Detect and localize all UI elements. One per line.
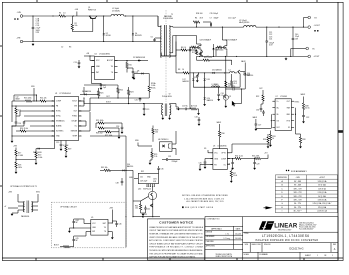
svg-text:C42: C42 bbox=[147, 209, 150, 211]
wire -VIN rail bbox=[23, 41, 161, 43]
wire opto collector bbox=[172, 143, 176, 145]
capacitor C16 bbox=[218, 87, 220, 94]
terminal +VOUT E4 bbox=[308, 26, 311, 29]
resistor R18 bbox=[15, 162, 17, 168]
wire u3 fb in bbox=[200, 163, 213, 165]
diode D11 bias bbox=[213, 72, 215, 74]
svg-text:R1: R1 bbox=[59, 13, 61, 15]
linear technology logo bbox=[259, 221, 298, 231]
wire vaux emitter bbox=[239, 74, 241, 87]
svg-text:CONTRACT NO.: CONTRACT NO. bbox=[207, 217, 221, 220]
svg-text:COMP: COMP bbox=[56, 101, 62, 103]
wire T2 secondary bbox=[169, 104, 171, 105]
wire bias mid rail bbox=[193, 86, 240, 88]
resistor R30 vcc bbox=[219, 131, 221, 137]
svg-text:Phone: (408) 432-1900: Phone: (408) 432-1900 bbox=[299, 227, 316, 229]
svg-text:+VB: +VB bbox=[86, 53, 89, 55]
resistor R7B gate bbox=[217, 46, 222, 48]
resistor R28 opto bbox=[152, 129, 154, 135]
ground C16 bbox=[218, 97, 220, 100]
wire ss row bbox=[24, 120, 55, 122]
svg-text:FOR ASSEMBLY: FOR ASSEMBLY bbox=[291, 170, 308, 173]
wire u7 left bus bbox=[270, 114, 272, 128]
svg-text:Q9: Q9 bbox=[229, 96, 231, 98]
svg-text:+VO: +VO bbox=[264, 153, 268, 155]
wire gnd row U1 bbox=[12, 135, 55, 137]
svg-text:BAS516: BAS516 bbox=[127, 165, 133, 168]
ground U5 right bbox=[111, 236, 113, 239]
svg-text:INP: INP bbox=[92, 231, 95, 233]
svg-text:R5B 100: R5B 100 bbox=[196, 13, 203, 15]
svg-text:D6 BAS516: D6 BAS516 bbox=[82, 90, 91, 93]
wire U1 vin row bbox=[82, 105, 85, 107]
for assembly table bbox=[275, 175, 337, 213]
svg-text:C6: C6 bbox=[151, 37, 153, 39]
svg-text:C30: C30 bbox=[256, 110, 259, 112]
wire OUT bus bbox=[90, 97, 149, 99]
terminal -VOUT E5 bbox=[306, 47, 309, 50]
assembly row arrow bbox=[266, 206, 273, 209]
capacitor C20 gate bbox=[139, 98, 142, 100]
diode D17 bbox=[192, 73, 194, 78]
net VFB stub opto bbox=[137, 143, 139, 147]
wire aux rail bbox=[175, 36, 177, 73]
wire q13 links bbox=[133, 200, 141, 202]
wire t4 stubs bbox=[18, 201, 25, 203]
svg-text:R8: R8 bbox=[178, 69, 180, 71]
wire L1 out bbox=[124, 15, 158, 17]
wire L2 to +VOUT bbox=[256, 26, 308, 28]
ground C15 R19 bbox=[60, 147, 62, 150]
svg-text:41.2: 41.2 bbox=[234, 83, 237, 85]
svg-text:J. Yu: J. Yu bbox=[225, 233, 229, 235]
svg-text:10-3-06: 10-3-06 bbox=[235, 233, 241, 235]
svg-text:C12: C12 bbox=[16, 97, 19, 99]
svg-text:CUSTOMER NOTICE: CUSTOMER NOTICE bbox=[159, 220, 193, 224]
svg-text:LT4430ES6: LT4430ES6 bbox=[218, 145, 227, 147]
ground C32 bbox=[303, 120, 305, 123]
frame zone marker bbox=[338, 130, 343, 133]
capacitor C13 vin bbox=[78, 60, 80, 62]
resistor R11 sense bbox=[195, 50, 197, 55]
wire u3 vcc top bbox=[219, 124, 221, 127]
wire delay oc rows bbox=[79, 120, 87, 122]
svg-text:18V - 72V: 18V - 72V bbox=[294, 188, 303, 190]
svg-text:OUT: OUT bbox=[259, 88, 263, 90]
svg-text:10: 10 bbox=[228, 86, 230, 88]
diode D15 bbox=[142, 216, 144, 218]
optional circuit dashed box bbox=[51, 202, 126, 248]
svg-text:VERIFY PROPER AND RELIABLE OPE: VERIFY PROPER AND RELIABLE OPERATION IN … bbox=[149, 236, 203, 239]
svg-text:B0530W: B0530W bbox=[135, 35, 142, 37]
svg-text:C45: C45 bbox=[76, 238, 79, 240]
resistor R14 bbox=[40, 100, 46, 102]
wire U5 bottom link bbox=[74, 235, 86, 237]
svg-text:SHEET: SHEET bbox=[305, 255, 312, 257]
resistor R62 bbox=[104, 169, 111, 171]
wire t2 to fet gates bbox=[189, 47, 191, 109]
svg-text:APPROVALS: APPROVALS bbox=[211, 227, 222, 230]
capacitor C42 bbox=[144, 207, 147, 209]
svg-text:BAS516: BAS516 bbox=[207, 99, 213, 102]
svg-text:RCSL: RCSL bbox=[151, 87, 156, 89]
svg-text:SOUT: SOUT bbox=[72, 101, 77, 103]
ground R33 bbox=[270, 143, 272, 146]
capacitor C1A-C1D input bank bbox=[32, 16, 34, 28]
wire -VOUT terminal stub bbox=[290, 49, 292, 57]
svg-text:BOOST: BOOST bbox=[107, 60, 114, 62]
svg-text:SYNC: SYNC bbox=[56, 116, 61, 118]
ground R18 bbox=[15, 170, 17, 173]
svg-text:U2: U2 bbox=[95, 54, 97, 56]
resistor R24 alt bbox=[191, 108, 197, 110]
capacitor C8 snubber2 bbox=[189, 49, 191, 52]
svg-text:-VIN: -VIN bbox=[17, 38, 21, 40]
svg-text:C35 100pF: C35 100pF bbox=[210, 13, 218, 15]
capacitor C34 top stub bbox=[198, 119, 201, 121]
terminal -VOUT E6 bbox=[308, 55, 311, 58]
svg-text:R4: R4 bbox=[195, 17, 197, 19]
svg-text:C20: C20 bbox=[135, 100, 138, 102]
svg-text:SW1: SW1 bbox=[36, 192, 40, 194]
svg-text:C2: C2 bbox=[61, 47, 63, 49]
svg-text:TECHNOLOGY: TECHNOLOGY bbox=[278, 229, 293, 231]
svg-text:BCP56-16: BCP56-16 bbox=[143, 188, 151, 190]
ground U1 left bbox=[11, 126, 13, 140]
diode D2 bbox=[103, 16, 105, 33]
svg-text:C26: C26 bbox=[232, 86, 235, 88]
wire cursor-area net bbox=[225, 56, 227, 80]
svg-text:18V - 72V: 18V - 72V bbox=[294, 196, 303, 198]
svg-text:C19: C19 bbox=[146, 109, 149, 111]
svg-text:10k: 10k bbox=[75, 25, 78, 27]
ground t2 sec2 bbox=[198, 109, 200, 112]
svg-text:PULSE ENG: PULSE ENG bbox=[162, 96, 172, 98]
svg-text:R30: R30 bbox=[221, 133, 224, 135]
svg-text:D18: D18 bbox=[207, 79, 210, 81]
svg-text:10: 10 bbox=[182, 69, 184, 71]
output probe dots bbox=[314, 30, 316, 32]
svg-text:U1: U1 bbox=[55, 93, 57, 95]
wire T2 primary bbox=[160, 103, 163, 105]
ground C27 bbox=[255, 127, 257, 130]
svg-text:OPTIONAL CIRCUIT: OPTIONAL CIRCUIT bbox=[60, 205, 78, 208]
svg-text:36 - 72V *: 36 - 72V * bbox=[294, 211, 302, 213]
svg-text:R27 100k: R27 100k bbox=[105, 135, 112, 137]
resistor R25 bbox=[98, 122, 104, 124]
net +VOUT stub fb bbox=[267, 155, 269, 159]
diode D18 bbox=[204, 73, 206, 78]
diode D14 bbox=[123, 169, 125, 171]
resistor R36 bbox=[267, 137, 269, 143]
resistor R22 bbox=[117, 88, 119, 93]
isolation boundary line bbox=[165, 10, 167, 24]
svg-text:PA0184NL: PA0184NL bbox=[21, 215, 29, 218]
capacitor C45 optional bbox=[72, 239, 75, 241]
svg-text:C28: C28 bbox=[227, 164, 230, 166]
transistor Q3 FZT690B bbox=[238, 71, 240, 73]
resistor R10 boost bbox=[126, 63, 128, 69]
svg-text:1: 1 bbox=[317, 255, 318, 257]
capacitor C12 boost bbox=[132, 71, 135, 73]
capacitor C15 nc bbox=[180, 108, 185, 110]
svg-text:C7: C7 bbox=[210, 17, 212, 19]
resistor R19 bbox=[65, 146, 67, 152]
svg-text:R19: R19 bbox=[68, 149, 71, 151]
svg-text:C46: C46 bbox=[118, 224, 121, 226]
wire R1 to Q1 bbox=[66, 15, 92, 17]
wire u7 right bbox=[295, 108, 297, 121]
svg-text:C32: C32 bbox=[306, 117, 309, 119]
svg-text:-VOUT: -VOUT bbox=[314, 56, 321, 58]
svg-text:R26 412: R26 412 bbox=[96, 133, 103, 135]
capacitor C25 left bbox=[204, 161, 207, 163]
svg-text:OPTO: OPTO bbox=[221, 152, 226, 154]
wire blank row bbox=[30, 125, 55, 127]
svg-text:OF: OF bbox=[324, 255, 326, 257]
resistor R27 bbox=[105, 131, 111, 133]
svg-text:100: 100 bbox=[135, 208, 138, 210]
svg-text:SIZE: SIZE bbox=[245, 244, 248, 246]
svg-text:C15 NC: C15 NC bbox=[182, 106, 189, 108]
svg-text:Q13: Q13 bbox=[138, 188, 141, 190]
resistor R26 bbox=[98, 127, 104, 129]
svg-text:CIRCUIT BOARD LAYOUT MAY SIGNI: CIRCUIT BOARD LAYOUT MAY SIGNIFICANTLY A… bbox=[149, 242, 203, 245]
svg-text:2k: 2k bbox=[272, 138, 274, 140]
wire u3 opto out bbox=[227, 152, 232, 154]
svg-text:C24: C24 bbox=[269, 39, 272, 41]
diode D4 bbox=[132, 16, 134, 33]
svg-text:L4: L4 bbox=[229, 70, 231, 72]
net +VB stub bbox=[76, 12, 78, 17]
svg-text:R25 100k: R25 100k bbox=[96, 120, 104, 122]
capacitor C27 bbox=[255, 123, 258, 125]
capacitor C46 optional bbox=[115, 223, 118, 225]
svg-text:1: 1 bbox=[332, 255, 333, 257]
diode D6 gate bbox=[80, 93, 85, 95]
svg-text:R14 22k: R14 22k bbox=[40, 98, 47, 100]
capacitor C28 bbox=[231, 162, 234, 164]
resistor R34 bbox=[235, 157, 241, 159]
inductor L3 bead bbox=[204, 82, 206, 87]
svg-text:82.5k: 82.5k bbox=[305, 108, 309, 110]
ground Q9 bbox=[225, 104, 227, 106]
svg-text:18V - 72V: 18V - 72V bbox=[294, 200, 303, 202]
wire sd/vsec bbox=[15, 160, 17, 163]
svg-text:IN+: IN+ bbox=[277, 107, 280, 109]
svg-text:C29: C29 bbox=[256, 164, 259, 166]
svg-text:9V - 36V: 9V - 36V bbox=[294, 181, 302, 183]
svg-text:L3 BEAD: L3 BEAD bbox=[212, 83, 220, 86]
svg-text:182k: 182k bbox=[18, 167, 22, 169]
svg-text:36 - 72V: 36 - 72V bbox=[294, 207, 302, 209]
wire bias a bbox=[189, 72, 210, 74]
svg-text:49.9: 49.9 bbox=[200, 17, 203, 19]
svg-text:C10: C10 bbox=[194, 77, 197, 79]
svg-text:R16 11.0k: R16 11.0k bbox=[20, 128, 28, 130]
svg-text:B2100: B2100 bbox=[106, 35, 111, 37]
svg-text:R32: R32 bbox=[256, 96, 259, 98]
resistor R23 bbox=[128, 90, 130, 95]
wire opto feedback net bbox=[95, 123, 97, 128]
svg-text:NP: NP bbox=[76, 222, 78, 224]
svg-text:C13: C13 bbox=[74, 62, 77, 64]
capacitor C10 bias bbox=[196, 75, 199, 77]
ground input bbox=[32, 42, 34, 45]
svg-text:BST: BST bbox=[103, 223, 106, 225]
svg-text:SYNC: SYNC bbox=[295, 101, 300, 103]
wire U2 boost bbox=[115, 60, 142, 62]
resistor R21 gate bbox=[98, 91, 100, 96]
svg-text:S. Young: S. Young bbox=[223, 237, 230, 240]
svg-text:R62 10k: R62 10k bbox=[101, 167, 108, 169]
svg-text:C31: C31 bbox=[168, 156, 171, 158]
ground U2 bbox=[100, 86, 102, 89]
svg-text:SEE QUICK START GUIDE: SEE QUICK START GUIDE bbox=[185, 206, 214, 209]
ground D20 bbox=[204, 102, 206, 105]
wire comp mid bbox=[241, 158, 255, 160]
svg-text:PGND: PGND bbox=[72, 116, 78, 118]
svg-text:ROSC: ROSC bbox=[56, 111, 62, 113]
svg-text:U4 PS2801-1: U4 PS2801-1 bbox=[158, 139, 169, 141]
svg-text:C11 0.1µF: C11 0.1µF bbox=[228, 17, 236, 19]
svg-text:DC1017A-G: DC1017A-G bbox=[289, 246, 303, 250]
resistor R13 bbox=[26, 100, 32, 102]
wire vert twig bbox=[132, 170, 134, 216]
resistor R35 bbox=[255, 157, 261, 159]
svg-text:C38: C38 bbox=[116, 183, 119, 185]
svg-text:BLANK: BLANK bbox=[56, 125, 62, 128]
diode D9 bbox=[213, 48, 215, 50]
capacitor C6 primary snubber bbox=[157, 16, 159, 27]
wire U5 vin stub bbox=[111, 210, 113, 224]
svg-text:R35 249k: R35 249k bbox=[252, 155, 259, 157]
svg-text:CIRCUIT THAT MEETS CUSTOMER-SU: CIRCUIT THAT MEETS CUSTOMER-SUPPLIED SPE… bbox=[149, 229, 203, 232]
input probe dots bbox=[14, 18, 16, 20]
diode D5 bbox=[38, 148, 40, 150]
svg-text:863M: 863M bbox=[16, 99, 21, 101]
svg-text:DO1608C: DO1608C bbox=[112, 10, 121, 12]
ground t4 bbox=[17, 210, 19, 213]
svg-text:MBRS340: MBRS340 bbox=[216, 50, 224, 52]
svg-text:U7: U7 bbox=[276, 96, 278, 98]
wire FB row bbox=[12, 105, 55, 107]
svg-text:BAS516: BAS516 bbox=[247, 74, 253, 77]
wire primary to T1 bbox=[157, 16, 159, 27]
svg-text:APPLICATION. COMPONENT SUBST: APPLICATION. COMPONENT SUBSTITUTION AND … bbox=[149, 239, 203, 242]
wire vcc row2 bbox=[83, 87, 85, 94]
capacitor C31 Y-cap bbox=[166, 158, 168, 161]
capacitor C32 bbox=[302, 115, 305, 117]
svg-text:TECHNOLOGY APPLICATIONS ENGINE: TECHNOLOGY APPLICATIONS ENGINEERING FOR … bbox=[149, 249, 203, 252]
resistor R20A RCSL bbox=[148, 86, 150, 92]
capacitor C26 bbox=[226, 88, 233, 90]
svg-text:R21: R21 bbox=[100, 93, 103, 95]
svg-text:V+: V+ bbox=[277, 101, 279, 103]
capacitor C30 pair bbox=[260, 108, 263, 110]
svg-text:C34: C34 bbox=[195, 117, 198, 119]
resistor R7A gate bbox=[192, 46, 197, 48]
capacitor C44 optional bbox=[72, 221, 75, 223]
resistor R37 fb lower bbox=[230, 171, 232, 177]
svg-text:1.2k: 1.2k bbox=[154, 156, 157, 158]
svg-text:R39: R39 bbox=[302, 139, 305, 141]
svg-text:Q2: Q2 bbox=[207, 56, 209, 58]
svg-text:Fax: (408) 434-0507: Fax: (408) 434-0507 bbox=[299, 229, 314, 231]
resistor R31 bbox=[225, 81, 227, 87]
wire sync row bbox=[24, 115, 55, 117]
svg-text:PERFORMANCE OR RELIABILITY.: PERFORMANCE OR RELIABILITY. CONTACT LINE… bbox=[149, 246, 203, 249]
ground optional bbox=[68, 229, 70, 232]
svg-text:FMMT718: FMMT718 bbox=[88, 9, 96, 11]
svg-text:C18: C18 bbox=[116, 126, 119, 128]
U8 pin stubs bbox=[146, 184, 148, 187]
svg-text:COMP: COMP bbox=[221, 158, 227, 160]
transformer T4 optional footprint bbox=[23, 202, 24, 212]
svg-text:DWG NO: DWG NO bbox=[264, 244, 271, 246]
wire isense row bbox=[79, 130, 91, 132]
wire U1 out row bbox=[79, 110, 91, 112]
wire SOUT bus bbox=[84, 103, 160, 105]
ground output bbox=[285, 57, 287, 60]
capacitor C14 bbox=[15, 121, 18, 123]
resistor R14 bbox=[231, 81, 233, 87]
capacitor C17 bbox=[92, 66, 95, 68]
svg-text:D8: D8 bbox=[137, 70, 139, 72]
svg-text:R34 15.4k: R34 15.4k bbox=[235, 155, 243, 157]
inductor L4 bias bbox=[230, 72, 235, 73]
wire bus to regulator bbox=[126, 169, 133, 171]
svg-text:100: 100 bbox=[155, 132, 158, 134]
svg-text:R13 220k: R13 220k bbox=[24, 98, 32, 100]
diode D16 bbox=[244, 72, 246, 74]
resistor R45 bbox=[140, 204, 142, 210]
capacitor C21-C24 output bank bbox=[266, 27, 268, 41]
title block outline bbox=[205, 217, 338, 261]
svg-text:C14: C14 bbox=[18, 123, 21, 125]
wire +VOUT up terminal bbox=[303, 18, 305, 28]
diode D20 bbox=[204, 87, 206, 97]
svg-text:R3: R3 bbox=[69, 47, 71, 49]
svg-text:1.0: 1.0 bbox=[63, 13, 66, 15]
svg-text:1µF: 1µF bbox=[103, 87, 106, 89]
resistor R33 bbox=[269, 134, 271, 140]
svg-text:U3: U3 bbox=[213, 145, 215, 147]
svg-text:+VIN: +VIN bbox=[17, 12, 22, 14]
svg-text:R10: R10 bbox=[129, 65, 132, 67]
svg-text:NP: NP bbox=[76, 240, 78, 242]
wire output return rail bbox=[197, 55, 308, 57]
capacitor C15 bbox=[60, 141, 62, 145]
wire T1 secondary bottom bbox=[169, 52, 172, 54]
wire +VIN rail bbox=[23, 15, 59, 17]
svg-text:VREF: VREF bbox=[72, 136, 77, 138]
capacitor C18 bbox=[121, 126, 124, 128]
resistor R6 snubber2 bbox=[181, 49, 187, 51]
net VFB stub bbox=[33, 88, 35, 101]
svg-text:Q7 Si7336ADP: Q7 Si7336ADP bbox=[226, 39, 238, 42]
transistor Q9 bbox=[223, 95, 228, 100]
svg-text:R22: R22 bbox=[120, 90, 123, 92]
svg-text:+VIN: +VIN bbox=[296, 177, 301, 179]
wire T1 aux bottom bbox=[160, 53, 162, 56]
svg-text:E5: E5 bbox=[313, 48, 315, 50]
wire reg out bbox=[153, 216, 160, 218]
svg-text:LT1952EGN-1, LT4430ES6: LT1952EGN-1, LT4430ES6 bbox=[262, 234, 309, 238]
svg-text:R15: R15 bbox=[18, 110, 21, 112]
wire T1 secondary top bbox=[169, 26, 172, 28]
resistor R8 bias bbox=[183, 72, 189, 74]
